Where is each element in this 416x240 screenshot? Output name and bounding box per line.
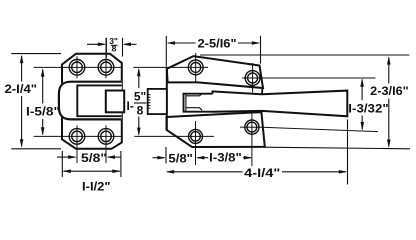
keeper hook band fill — [58, 81, 122, 121]
svg-text:I-: I- — [127, 99, 134, 113]
keeper hook band outer — [59, 82, 122, 120]
keeper hook band inner — [77, 85, 122, 116]
hole H1 — [69, 56, 85, 78]
right view body left edge — [166, 69, 168, 130]
handle — [212, 91, 347, 117]
spring coils — [147, 95, 151, 109]
svg-text:2-3/I6": 2-3/I6" — [370, 84, 409, 98]
dim 5/8 bottom-left — [57, 156, 121, 158]
hole H2 — [98, 38, 114, 79]
svg-text:I-I/2": I-I/2" — [82, 179, 111, 193]
dim 1-5/8 middle — [138, 70, 140, 135]
svg-text:I-5/8": I-5/8" — [26, 105, 60, 119]
keeper strike block — [106, 91, 124, 113]
hole A — [188, 53, 203, 82]
hole H4 — [98, 125, 114, 163]
svg-text:2-I/4": 2-I/4" — [5, 82, 38, 96]
right body edge segments — [261, 88, 263, 95]
svg-text:4-I/4": 4-I/4" — [244, 166, 280, 180]
dim 1-3/8 — [197, 157, 251, 159]
svg-text:5/8": 5/8" — [168, 152, 193, 166]
svg-text:5": 5" — [134, 90, 146, 104]
hole H3 — [69, 125, 85, 163]
dim 2-3/16 right — [200, 55, 410, 149]
dim 1-5/8 left — [42, 70, 44, 135]
hole B — [242, 63, 376, 93]
dim 2-1/4 left — [11, 54, 61, 149]
hole D — [240, 113, 378, 167]
bottom flange — [167, 112, 265, 147]
hole centerlines horizontal (shared bottom) — [34, 135, 122, 137]
svg-text:8: 8 — [137, 104, 144, 118]
svg-text:5/8": 5/8" — [81, 151, 107, 165]
bracket — [184, 94, 213, 112]
dim 2-5/16 top — [166, 36, 260, 67]
spring box — [148, 89, 167, 114]
top flange — [167, 56, 263, 88]
dim 3/8 top — [87, 38, 137, 58]
dim 1-3/32 — [361, 80, 363, 130]
svg-text:I-3/8": I-3/8" — [209, 151, 242, 165]
keeper plate outline — [62, 54, 122, 149]
dim 5/8 bottom-right — [153, 147, 167, 164]
dim 4-1/4 — [167, 120, 347, 185]
svg-text:2-5/I6": 2-5/I6" — [198, 36, 237, 50]
dim 1-1/2 bottom-left — [62, 151, 121, 177]
hole centerlines horizontal (shared top) — [34, 66, 122, 68]
svg-text:I-3/32": I-3/32" — [348, 102, 388, 116]
hole C — [189, 121, 203, 165]
